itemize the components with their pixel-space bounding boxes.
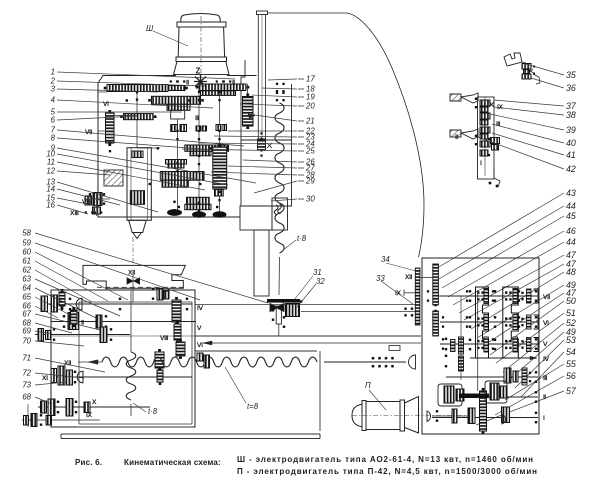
- svg-text:19: 19: [306, 93, 315, 102]
- svg-text:Ⅻ: Ⅻ: [404, 274, 412, 281]
- screw shaft right part: [324, 361, 406, 363]
- svg-text:Ш - электродвигатель типа АО2-: Ш - электродвигатель типа АО2-61-4, N=13…: [237, 455, 534, 464]
- svg-text:42: 42: [566, 164, 576, 174]
- feed rod vertical: [130, 291, 132, 352]
- low d: [500, 386, 507, 398]
- motor centerline: [200, 16, 202, 86]
- svg-text:Ⅴ: Ⅴ: [196, 325, 202, 332]
- cable curve to feed box: [268, 13, 425, 257]
- arrow left: [88, 360, 98, 364]
- svg-text:72: 72: [22, 369, 31, 378]
- sm gear L2: [85, 196, 92, 205]
- bottom stub shaft: [22, 419, 100, 421]
- pinion on column: [258, 139, 266, 150]
- coup a: [452, 409, 457, 423]
- g36c: [522, 74, 531, 79]
- svg-text:53: 53: [566, 335, 576, 345]
- housing gear 7: [480, 150, 488, 156]
- cluster J2: [185, 204, 211, 209]
- svg-text:33: 33: [376, 274, 385, 283]
- g36b: [524, 70, 530, 74]
- gear bar A: [107, 85, 168, 92]
- svg-text:41: 41: [566, 150, 576, 160]
- input column A on box edge: [415, 270, 420, 274]
- S3c: [100, 327, 107, 343]
- X mark: [489, 102, 494, 107]
- housing gear 6: [480, 141, 490, 147]
- left stub shaft: [84, 198, 110, 200]
- svg-text:43: 43: [566, 188, 576, 198]
- S6c: [46, 416, 52, 426]
- gear bar C: [152, 96, 201, 104]
- S6a: [24, 416, 29, 426]
- svg-text:Ⅵ: Ⅵ: [542, 320, 549, 327]
- svg-text:64: 64: [22, 284, 31, 293]
- star cluster: [194, 75, 207, 89]
- svg-text:20: 20: [305, 102, 315, 111]
- x158a: [155, 349, 164, 371]
- svg-text:Ш: Ш: [146, 24, 154, 33]
- vertical shafts: [198, 88, 200, 213]
- svg-text:46: 46: [566, 226, 576, 236]
- low c: [490, 383, 499, 400]
- sleeve: [171, 110, 185, 119]
- svg-text:Ⅳ: Ⅳ: [197, 305, 203, 312]
- bevel b2: [202, 126, 207, 131]
- top small gears row: [170, 80, 179, 82]
- svg-text:Ⅰ: Ⅰ: [543, 415, 545, 422]
- table surface: [195, 335, 421, 337]
- svg-text:Z: Z: [196, 67, 201, 76]
- apron outer: [51, 290, 195, 427]
- bar A stub: [168, 86, 185, 91]
- shifter column C1: [476, 287, 489, 358]
- shaft to feed box: [301, 311, 420, 313]
- apron spring: [126, 352, 135, 400]
- S4a: [58, 366, 65, 385]
- svg-text:Рис. 6.: Рис. 6.: [75, 458, 102, 467]
- svg-text:45: 45: [566, 211, 576, 221]
- bevel c2: [222, 125, 227, 131]
- svg-text:Ⅲ: Ⅲ: [195, 115, 199, 122]
- svg-text:1: 1: [51, 68, 55, 77]
- arrow IV: [530, 356, 537, 360]
- svg-text:Ⅸ: Ⅸ: [395, 290, 401, 297]
- svg-text:44: 44: [566, 201, 576, 211]
- cluster H2: [162, 180, 188, 187]
- coupling cone: [427, 411, 431, 421]
- S-hook mark: [274, 205, 278, 215]
- svg-text:36: 36: [566, 83, 576, 93]
- halfnut b: [204, 355, 210, 368]
- bevel c1: [216, 125, 221, 131]
- extra bearing dots: [198, 91, 200, 102]
- svg-text:63: 63: [22, 275, 31, 284]
- spindle gear a: [132, 151, 143, 158]
- leadscrew wave: [102, 357, 317, 367]
- svg-text:Ⅸ: Ⅸ: [86, 412, 92, 419]
- svg-text:31: 31: [313, 268, 322, 277]
- motor Sh (top drive motor): [181, 14, 220, 23]
- svg-text:t·8: t·8: [297, 234, 307, 243]
- shaft S3: [35, 334, 130, 336]
- low housing b: [485, 381, 507, 403]
- S1b: [52, 295, 58, 312]
- svg-text:51: 51: [566, 308, 576, 318]
- base top: [61, 433, 320, 435]
- svg-text:70: 70: [22, 337, 31, 346]
- shaft VI vertical: [136, 92, 138, 149]
- cluster G4: [168, 164, 184, 168]
- vstack a: [59, 289, 65, 309]
- rstack a: [172, 297, 181, 325]
- svg-text:25: 25: [305, 147, 315, 156]
- S5c: [66, 399, 73, 417]
- svg-text:34: 34: [381, 255, 390, 264]
- left gear column: [459, 337, 464, 354]
- svg-text:4: 4: [51, 96, 56, 105]
- svg-text:38: 38: [566, 110, 576, 120]
- svg-text:29: 29: [305, 177, 315, 186]
- bevel pair a2: [180, 125, 187, 132]
- svg-text:П - электродвигатель типа П-42: П - электродвигатель типа П-42, N=4,5 кв…: [237, 467, 538, 476]
- svg-text:Ⅲ: Ⅲ: [543, 375, 547, 382]
- svg-text:Ⅷ: Ⅷ: [159, 335, 168, 342]
- vert clutch gear: [106, 110, 115, 146]
- apron bottom: [76, 426, 192, 428]
- cluster J1: [187, 197, 210, 204]
- S6b: [31, 414, 37, 427]
- shaft S2: [51, 321, 196, 323]
- motor axis: [352, 415, 475, 417]
- low e: [502, 407, 510, 423]
- shaft S4: [51, 376, 192, 378]
- caption: [75, 455, 538, 476]
- housing gear 4: [480, 127, 490, 133]
- svg-text:59: 59: [22, 239, 31, 248]
- svg-text:50: 50: [566, 296, 576, 306]
- bevel b1: [196, 126, 201, 131]
- housing gear 2: [480, 113, 490, 119]
- svg-text:62: 62: [22, 266, 31, 275]
- drill rod: [278, 257, 281, 295]
- bevel pair a1: [171, 125, 178, 132]
- svg-text:71: 71: [22, 354, 31, 363]
- S2a: [68, 313, 79, 330]
- svg-text:48: 48: [566, 267, 576, 277]
- low housing a: [438, 384, 462, 406]
- apron tr gear b: [164, 291, 169, 299]
- low b: [456, 389, 464, 401]
- column post: [257, 11, 268, 15]
- X mark crank: [529, 69, 533, 73]
- bevel on knee: [127, 278, 140, 284]
- svg-text:Ⅳ: Ⅳ: [543, 356, 549, 363]
- vertical stub: [276, 306, 281, 324]
- svg-text:58: 58: [22, 229, 31, 238]
- svg-text:16: 16: [46, 201, 55, 210]
- tall gear I: [213, 144, 227, 192]
- svg-text:21: 21: [305, 117, 315, 126]
- flange R: [400, 400, 405, 431]
- small coupling on VI: [389, 346, 400, 351]
- flange L: [362, 401, 366, 431]
- cone S4: [77, 371, 83, 383]
- svg-text:32: 32: [316, 277, 325, 286]
- svg-text:73: 73: [22, 381, 31, 390]
- connection lines: [106, 115, 137, 117]
- cluster H1: [160, 172, 204, 181]
- selector housing: [478, 97, 495, 179]
- shaft S1: [42, 303, 192, 305]
- coup b: [468, 408, 475, 424]
- hub under C: [167, 104, 190, 110]
- cap: [352, 404, 362, 426]
- shaft S5: [38, 406, 150, 408]
- svg-text:Ⅵ: Ⅵ: [196, 342, 203, 349]
- base bottom: [61, 438, 320, 440]
- bell: [405, 397, 419, 434]
- svg-text:35: 35: [566, 70, 576, 80]
- rstack b: [174, 321, 181, 343]
- cone on shaft I: [502, 415, 505, 425]
- apron tr gear a: [157, 289, 163, 300]
- svg-text:Ⅺ: Ⅺ: [41, 375, 48, 382]
- rstack c: [176, 339, 185, 359]
- right edge dots: [535, 290, 537, 302]
- S3b: [46, 331, 51, 340]
- svg-text:12: 12: [46, 167, 55, 176]
- svg-text:67: 67: [22, 310, 31, 319]
- spline dots on screw shaft: [372, 357, 394, 368]
- lever 1: [450, 94, 461, 101]
- gear bar D: [124, 114, 154, 120]
- arrow 21: [248, 114, 255, 119]
- svg-text:Ⅲ: Ⅲ: [496, 121, 500, 128]
- drill chuck: [129, 220, 147, 238]
- headstock outline: [98, 76, 240, 218]
- svg-text:Ⅱ: Ⅱ: [543, 394, 546, 401]
- svg-text:t=8: t=8: [247, 402, 259, 411]
- spindle axis: [132, 237, 134, 264]
- svg-text:68: 68: [22, 393, 31, 402]
- svg-text:54: 54: [566, 347, 576, 357]
- quill: [254, 230, 269, 296]
- g36a: [522, 64, 531, 70]
- row III gear a: [504, 368, 511, 383]
- vstack b: [71, 307, 78, 327]
- svg-text:56: 56: [566, 371, 576, 381]
- svg-text:8: 8: [51, 134, 56, 143]
- S5a: [41, 401, 47, 413]
- svg-text:11: 11: [47, 158, 55, 167]
- lever 2: [450, 130, 461, 137]
- column housing: [241, 140, 292, 206]
- bevel pair: [270, 304, 284, 312]
- low f: [469, 408, 475, 424]
- svg-text:17: 17: [306, 75, 315, 84]
- S5d: [84, 402, 90, 413]
- svg-text:61: 61: [22, 257, 31, 266]
- svg-text:Ⅷ: Ⅷ: [81, 199, 90, 206]
- lower housing box: [240, 206, 272, 230]
- stations: [469, 289, 538, 353]
- center vertical: [477, 290, 479, 391]
- svg-text:55: 55: [566, 359, 576, 369]
- gear bar B: [199, 84, 246, 91]
- second bar under B: [201, 91, 236, 96]
- cluster G1: [185, 145, 229, 151]
- svg-text:Ⅰ: Ⅰ: [480, 160, 482, 167]
- body: [366, 402, 400, 430]
- S4c: [51, 369, 57, 383]
- sm gear L1: [93, 193, 102, 206]
- svg-text:t·8: t·8: [148, 407, 158, 416]
- vert gear 21: [243, 94, 254, 130]
- S4b: [67, 370, 73, 385]
- dark drive bar: [459, 394, 489, 399]
- svg-text:Ⅴ: Ⅴ: [542, 341, 548, 348]
- feed spring t=8: [276, 83, 278, 93]
- low a: [444, 386, 454, 403]
- feed gearbox outline: [422, 258, 539, 434]
- S1a: [41, 296, 48, 312]
- knee outline: [83, 265, 185, 288]
- svg-text:П: П: [365, 381, 371, 390]
- svg-text:57: 57: [566, 386, 577, 396]
- housing gear 0: [480, 100, 490, 106]
- housing gear 3: [480, 120, 488, 125]
- cluster G3: [166, 160, 187, 165]
- low tall: [480, 388, 487, 434]
- worm wheel: [286, 304, 300, 317]
- crank 36: [533, 74, 540, 84]
- S3a: [38, 329, 44, 342]
- shaft VI apron to feed box: [203, 342, 421, 344]
- feed rod to box: [195, 304, 420, 306]
- svg-text:Кинематическая схема:: Кинематическая схема:: [124, 458, 221, 467]
- hatched block 12: [104, 170, 123, 186]
- svg-text:14: 14: [46, 185, 55, 194]
- S5b: [48, 399, 55, 416]
- svg-text:Ⅹ: Ⅹ: [91, 399, 97, 406]
- svg-text:6: 6: [51, 116, 56, 125]
- dots left of column A: [404, 308, 406, 310]
- worm unit dark bar: [267, 299, 300, 303]
- side gear a: [491, 138, 500, 144]
- cone S1: [76, 298, 82, 310]
- cluster G2: [190, 151, 211, 156]
- svg-text:Ⅱ: Ⅱ: [455, 134, 458, 141]
- shifter column C2: [503, 287, 519, 358]
- svg-text:3: 3: [51, 85, 56, 94]
- svg-text:60: 60: [22, 248, 31, 257]
- fork lever 35: [504, 53, 522, 66]
- S2b: [96, 315, 102, 328]
- shaft mid dots: [442, 316, 444, 328]
- svg-text:44: 44: [566, 237, 576, 247]
- spindle sleeve: [127, 148, 151, 221]
- svg-text:40: 40: [566, 138, 576, 148]
- sm gear L3: [93, 207, 101, 214]
- cone at screw end: [409, 355, 416, 369]
- shafts: [440, 295, 538, 297]
- svg-text:39: 39: [566, 125, 576, 135]
- svg-text:65: 65: [22, 293, 31, 302]
- bevel ellipses: [167, 209, 182, 216]
- row III gear b: [513, 371, 518, 382]
- housing gear 5: [480, 134, 488, 139]
- spring box: [272, 198, 288, 230]
- spindle gear b: [130, 191, 144, 205]
- x158b: [157, 367, 163, 385]
- housing gear 1: [480, 107, 488, 112]
- arrow VI: [203, 341, 212, 345]
- side gear b: [492, 145, 499, 151]
- halfnut a: [197, 353, 203, 361]
- svg-text:Ⅶ: Ⅶ: [542, 294, 550, 301]
- svg-text:69: 69: [22, 327, 31, 336]
- dashed table line: [97, 286, 185, 288]
- motor base plate: [174, 74, 230, 76]
- svg-text:30: 30: [306, 195, 315, 204]
- input column B: [433, 264, 439, 305]
- hook below: [494, 168, 500, 187]
- small gear below I: [215, 190, 224, 197]
